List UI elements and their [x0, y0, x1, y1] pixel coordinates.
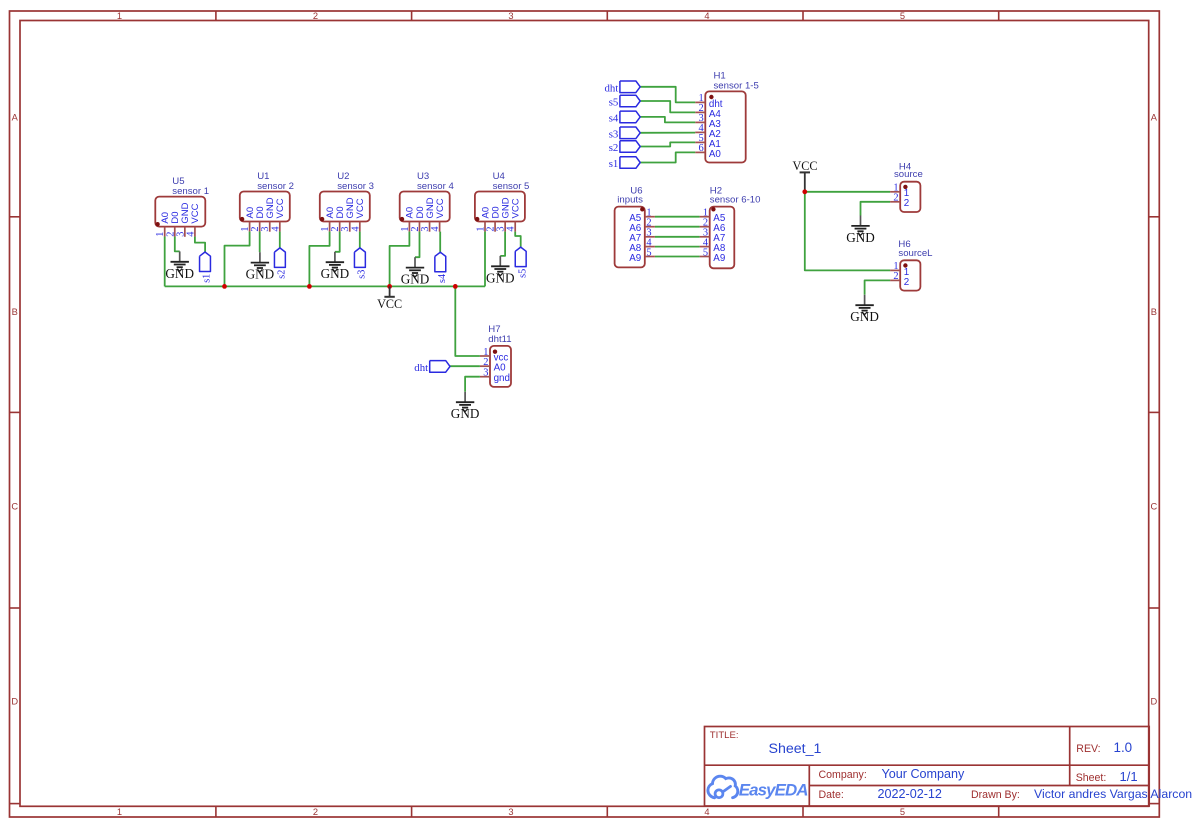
net flag dht-H7: [414, 361, 450, 374]
svg-text:A: A: [1151, 112, 1158, 122]
svg-text:dht: dht: [414, 362, 428, 374]
svg-text:3: 3: [483, 368, 488, 379]
wire flag s3 to H1 pin4: [640, 132, 695, 134]
svg-text:2: 2: [313, 807, 318, 817]
component H4 (source): [890, 161, 923, 212]
frame column tick bottom 3: [606, 806, 608, 817]
pin 3 (GND) of U4: [504, 222, 506, 232]
pin 6 (A0) of H1: [695, 151, 705, 153]
svg-text:GND: GND: [246, 267, 275, 282]
wire U5 pin4 to flag s1: [195, 237, 205, 252]
svg-text:EasyEDA: EasyEDA: [739, 780, 808, 799]
component U6 (inputs): [615, 186, 655, 268]
wire U3 pin2 to ground: [415, 232, 420, 258]
frame column tick bottom 5: [998, 806, 1000, 817]
wire U5 pin2 to ground: [175, 237, 180, 252]
svg-text:5: 5: [703, 247, 708, 258]
net flag s2: [274, 248, 287, 279]
sensor component U1 (sensor 2): [240, 171, 294, 232]
pin 4 (VCC) of U1: [279, 222, 281, 232]
component H2 (sensor 6-10): [700, 186, 761, 269]
frame row tick right 3: [1149, 607, 1160, 609]
svg-text:REV:: REV:: [1076, 743, 1100, 755]
junction bus-H7: [453, 284, 458, 289]
wire U6 pin2 to H2 pin2: [655, 226, 700, 228]
svg-text:inputs: inputs: [617, 195, 643, 206]
wire flag s4 to H1 pin3: [640, 117, 695, 123]
svg-text:sensor 1: sensor 1: [172, 186, 209, 197]
ground GND-H7: [451, 392, 480, 421]
wire dht flag to H7 pin2: [450, 365, 480, 367]
net flag s4: [435, 252, 448, 283]
svg-text:5: 5: [900, 11, 905, 21]
pin 3 (A3) of H1: [695, 121, 705, 123]
svg-text:s2: s2: [609, 142, 619, 154]
svg-text:1/1: 1/1: [1120, 769, 1138, 784]
svg-text:VCC: VCC: [355, 198, 366, 218]
svg-text:A: A: [12, 112, 19, 122]
ground GND-U1: [246, 252, 275, 281]
pin 5 (A9) of H2: [700, 256, 710, 258]
svg-text:3: 3: [508, 807, 513, 817]
svg-text:VCC: VCC: [792, 159, 817, 173]
svg-text:1: 1: [117, 11, 122, 21]
pin 2 (A6) of H2: [700, 226, 710, 228]
pin 2 (A4) of H1: [695, 111, 705, 113]
frame column tick top 1: [215, 11, 217, 21]
pin 3 (A7) of U6: [645, 236, 655, 238]
pin 4 (VCC) of U5: [194, 227, 196, 237]
ground GND-U4: [486, 256, 515, 285]
pin 2 (A0) of H7: [480, 365, 490, 367]
svg-text:D: D: [1151, 697, 1158, 707]
pin 4 (VCC) of U2: [359, 222, 361, 232]
sensor component U3 (sensor 4): [400, 171, 455, 232]
svg-text:s1: s1: [202, 274, 213, 283]
svg-text:sensor 5: sensor 5: [493, 181, 530, 192]
sensor component U4 (sensor 5): [475, 171, 529, 232]
wire U3 pin4 to flag s4: [439, 232, 441, 253]
wire VCC to H4 pin1: [805, 191, 890, 193]
svg-text:sourceL: sourceL: [898, 248, 933, 259]
pin 1 (A0) of U4: [484, 222, 486, 232]
power symbol VCC (top right): [792, 159, 817, 192]
wire U1 pin2 to ground: [259, 232, 261, 253]
svg-text:2022-02-12: 2022-02-12: [878, 787, 942, 801]
net flag s5-H1: [609, 95, 641, 108]
frame column tick bottom 1: [215, 806, 217, 817]
svg-text:GND: GND: [846, 230, 875, 245]
component H1 (sensor 1-5): [695, 70, 759, 162]
wire bus to H7 pin1: [455, 286, 480, 356]
net flag s2-H1: [609, 141, 641, 154]
sensor component U5 (sensor 1): [155, 176, 209, 237]
frame row tick left 4: [10, 803, 21, 805]
frame row tick right 4: [1149, 803, 1160, 805]
svg-text:4: 4: [704, 11, 709, 21]
svg-text:4: 4: [704, 807, 709, 817]
svg-text:sensor 2: sensor 2: [257, 181, 294, 192]
title block border: [705, 727, 1150, 807]
junction bus-U1: [222, 284, 227, 289]
pin 4 (VCC) of U4: [514, 222, 516, 232]
title block row divider 1: [705, 764, 1150, 766]
net flag s4-H1: [609, 111, 641, 124]
svg-text:C: C: [11, 501, 18, 511]
pin 1 (A0) of U3: [408, 222, 410, 232]
pin 2 (D0) of U2: [339, 222, 341, 232]
svg-text:dht11: dht11: [488, 334, 511, 345]
wire U6 pin5 to H2 pin5: [655, 256, 700, 258]
frame column tick bottom 2: [411, 806, 413, 817]
net flag s1-H1: [609, 157, 641, 170]
pin 2 (D0) of U5: [174, 227, 176, 237]
wire U6 pin4 to H2 pin4: [655, 246, 700, 248]
junction bus-U2: [307, 284, 312, 289]
ground GND-H4: [846, 216, 875, 245]
wire U4 pin1 to bus: [484, 232, 486, 287]
pin 3 (GND) of U2: [349, 222, 351, 232]
pin 1 (vcc) of H7: [480, 355, 490, 357]
svg-text:A0: A0: [494, 363, 507, 374]
pin 3 (GND) of U1: [269, 222, 271, 232]
svg-text:2: 2: [904, 198, 909, 209]
svg-text:4: 4: [185, 232, 196, 237]
svg-text:Date:: Date:: [819, 789, 844, 801]
svg-text:VCC: VCC: [435, 198, 446, 218]
svg-text:2: 2: [313, 11, 318, 21]
pin 2 (D0) of U3: [418, 222, 420, 232]
svg-text:GND: GND: [486, 270, 515, 285]
svg-text:4: 4: [506, 226, 517, 231]
pin 4 (VCC) of U3: [439, 222, 441, 232]
pin 2 (2) of H4: [890, 201, 900, 203]
net flag s3-H1: [609, 127, 641, 140]
svg-text:VCC: VCC: [511, 198, 522, 218]
frame column tick top 2: [411, 11, 413, 21]
wire U6 pin1 to H2 pin1: [655, 216, 700, 218]
wire flag s5 to H1 pin2: [640, 101, 695, 112]
pin 4 (A8) of U6: [645, 246, 655, 248]
svg-text:sensor 6-10: sensor 6-10: [710, 195, 761, 206]
wire U3 pin1 to bus: [390, 232, 410, 287]
pin 3 (A7) of H2: [700, 236, 710, 238]
component H7 (dht11): [480, 324, 512, 387]
title block column divider logo/company: [808, 765, 810, 806]
svg-text:3: 3: [508, 11, 513, 21]
pin 5 (A1) of H1: [695, 141, 705, 143]
svg-text:Sheet:: Sheet:: [1076, 772, 1107, 784]
ground GND-H6: [850, 295, 879, 324]
svg-text:VCC: VCC: [275, 198, 286, 218]
power symbol VCC (bus): [377, 286, 402, 310]
frame row tick right 2: [1149, 411, 1160, 413]
title block column divider rev: [1069, 727, 1071, 786]
svg-text:2: 2: [904, 277, 909, 288]
net flag s1: [200, 252, 213, 283]
pin 5 (A9) of U6: [645, 256, 655, 258]
net flag s3: [354, 248, 367, 279]
junction bus-VCC: [387, 284, 392, 289]
pin 1 (A5) of U6: [645, 216, 655, 218]
pin 1 (A0) of U5: [164, 227, 166, 237]
net flag s5: [515, 247, 528, 278]
svg-text:source: source: [894, 169, 923, 180]
pin 3 (GND) of U5: [184, 227, 186, 237]
pin 2 (A6) of U6: [645, 226, 655, 228]
svg-text:1.0: 1.0: [1114, 740, 1133, 755]
pin 1 (1) of H4: [890, 191, 900, 193]
wire H4 pin2 to ground: [861, 202, 891, 216]
pin 4 (A8) of H2: [700, 246, 710, 248]
wire U1 pin4 to flag s2: [279, 232, 281, 248]
pin 3 (gnd) of H7: [480, 376, 490, 378]
svg-text:2: 2: [893, 271, 898, 282]
svg-text:4: 4: [430, 226, 441, 231]
svg-text:Sheet_1: Sheet_1: [769, 741, 822, 757]
pin 1 (1) of H6: [890, 269, 900, 271]
svg-text:A9: A9: [629, 253, 641, 264]
svg-text:VCC: VCC: [377, 297, 402, 311]
frame column tick top 3: [606, 11, 608, 21]
pin 1 (dht) of H1: [695, 101, 705, 103]
svg-text:A9: A9: [713, 253, 725, 264]
svg-text:s5: s5: [609, 97, 619, 109]
svg-text:sensor 3: sensor 3: [337, 181, 374, 192]
wire VCC to H6 pin1: [805, 192, 890, 271]
ground GND-U3: [401, 257, 430, 286]
frame column tick bottom 4: [802, 806, 804, 817]
svg-text:Drawn By:: Drawn By:: [971, 789, 1020, 801]
svg-text:GND: GND: [321, 266, 350, 281]
svg-text:Victor andres Vargas Alarcon: Victor andres Vargas Alarcon: [1034, 787, 1192, 801]
wire VCC bus horizontal: [165, 285, 485, 287]
svg-text:2: 2: [893, 193, 898, 204]
net flag dht-H1: [605, 81, 641, 94]
pin 4 (A2) of H1: [695, 131, 705, 133]
svg-text:VCC: VCC: [190, 203, 201, 223]
svg-text:s3: s3: [357, 270, 368, 279]
wire U4 pin4 to flag s5: [515, 232, 521, 248]
svg-text:GND: GND: [165, 266, 194, 281]
svg-text:1: 1: [117, 807, 122, 817]
svg-text:sensor 1-5: sensor 1-5: [714, 80, 759, 91]
wire H6 pin2 to ground: [865, 280, 891, 294]
svg-text:Your Company: Your Company: [882, 767, 966, 781]
frame row tick left 2: [10, 411, 21, 413]
pin 2 (D0) of U1: [259, 222, 261, 232]
pin 3 (GND) of U3: [429, 222, 431, 232]
svg-text:s3: s3: [609, 128, 619, 140]
frame row tick right 1: [1149, 216, 1160, 218]
svg-text:dht: dht: [605, 82, 619, 94]
ground GND-U2: [321, 252, 350, 281]
pin 1 (A0) of U2: [329, 222, 331, 232]
wire U4 pin3 to ground: [500, 232, 505, 256]
svg-text:6: 6: [698, 143, 703, 154]
pin 1 (A0) of U1: [249, 222, 251, 232]
frame row tick left 1: [10, 216, 21, 218]
component H6 (sourceL): [890, 239, 933, 291]
frame column tick top 4: [802, 11, 804, 21]
frame row tick left 3: [10, 607, 21, 609]
wire flag s2 to H1 pin5: [640, 142, 695, 146]
svg-text:s1: s1: [609, 158, 619, 170]
EasyEDA logo cloud icon: [708, 776, 738, 798]
svg-text:B: B: [1151, 307, 1157, 317]
svg-text:D: D: [11, 697, 18, 707]
svg-text:Company:: Company:: [819, 769, 867, 781]
svg-text:s4: s4: [437, 274, 448, 283]
svg-text:B: B: [12, 307, 18, 317]
wire U2 pin1 to bus: [309, 232, 329, 287]
wire flag s1 to H1 pin6: [640, 152, 695, 162]
wire U1 pin1 to bus: [225, 232, 250, 287]
wire U2 pin2 to ground: [335, 232, 340, 252]
svg-text:GND: GND: [451, 406, 480, 421]
svg-text:GND: GND: [850, 309, 879, 324]
svg-text:GND: GND: [401, 272, 430, 287]
title block row divider 2: [809, 785, 1149, 787]
svg-text:4: 4: [350, 226, 361, 231]
svg-text:C: C: [1151, 501, 1158, 511]
junction VCC-H4H6: [802, 189, 807, 194]
svg-text:TITLE:: TITLE:: [710, 730, 739, 741]
svg-text:A0: A0: [709, 149, 722, 160]
pin 1 (A5) of H2: [700, 216, 710, 218]
svg-text:s5: s5: [517, 269, 528, 278]
wire U2 pin4 to flag s3: [359, 232, 361, 248]
svg-text:2: 2: [483, 357, 488, 368]
wire flag dht to H1 pin1: [640, 87, 695, 103]
svg-text:sensor 4: sensor 4: [417, 181, 454, 192]
svg-text:s4: s4: [609, 113, 619, 125]
sensor component U2 (sensor 3): [320, 171, 374, 232]
svg-text:5: 5: [900, 807, 905, 817]
svg-text:4: 4: [270, 226, 281, 231]
wire H7 pin3 to ground: [465, 377, 480, 392]
svg-text:gnd: gnd: [494, 373, 510, 384]
pin 2 (2) of H6: [890, 279, 900, 281]
svg-text:5: 5: [646, 247, 651, 258]
frame column tick top 5: [998, 11, 1000, 21]
wire U6 pin3 to H2 pin3: [655, 236, 700, 238]
svg-text:s2: s2: [277, 270, 288, 279]
pin 2 (D0) of U4: [494, 222, 496, 232]
ground GND-U5: [165, 251, 194, 280]
wire U5 pin1 to bus: [164, 237, 166, 287]
